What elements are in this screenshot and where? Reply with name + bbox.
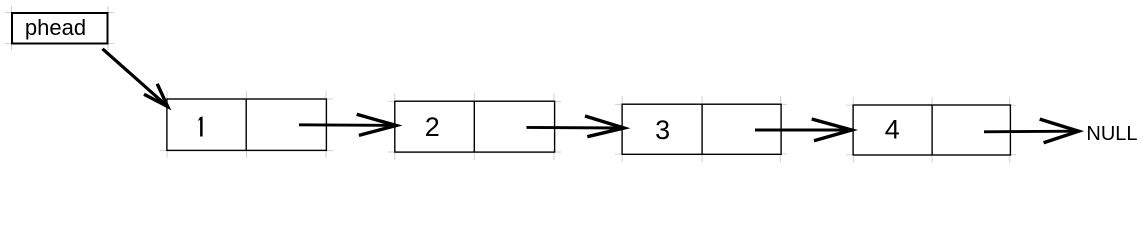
node 3 divider [701, 104, 703, 154]
phead label [25, 15, 86, 40]
guide ticks phead box [5, 6, 114, 50]
arrow node2 to node3 [527, 116, 625, 137]
svg-text:NULL: NULL [1086, 123, 1137, 145]
guide ticks node 2 [388, 93, 561, 160]
node 4 value 4 [885, 115, 900, 145]
node 4 box [853, 105, 1010, 155]
node 2 divider [473, 101, 475, 152]
node 1 value 1 [198, 116, 203, 136]
svg-text:phead: phead [25, 15, 86, 40]
guide ticks node 3 [615, 96, 787, 162]
node 2 value 2 [425, 112, 440, 142]
node 1 divider [245, 99, 247, 150]
svg-text:2: 2 [425, 112, 440, 142]
node 4 divider [931, 105, 933, 155]
guide ticks node 1 [160, 91, 333, 158]
arrow node3 to node4 [755, 119, 852, 141]
node 1 box [167, 99, 327, 150]
arrow node1 to node2 [299, 114, 396, 135]
guide ticks node 4 [846, 97, 1016, 163]
svg-text:4: 4 [885, 115, 900, 145]
arrow phead to node1 [103, 49, 168, 107]
node 2 box [395, 101, 555, 152]
node 3 value 3 [655, 115, 670, 145]
NULL label [1086, 123, 1137, 145]
node 3 box [622, 104, 781, 154]
arrow node4 to NULL [984, 119, 1079, 143]
phead box [12, 13, 108, 44]
svg-text:3: 3 [655, 115, 670, 145]
